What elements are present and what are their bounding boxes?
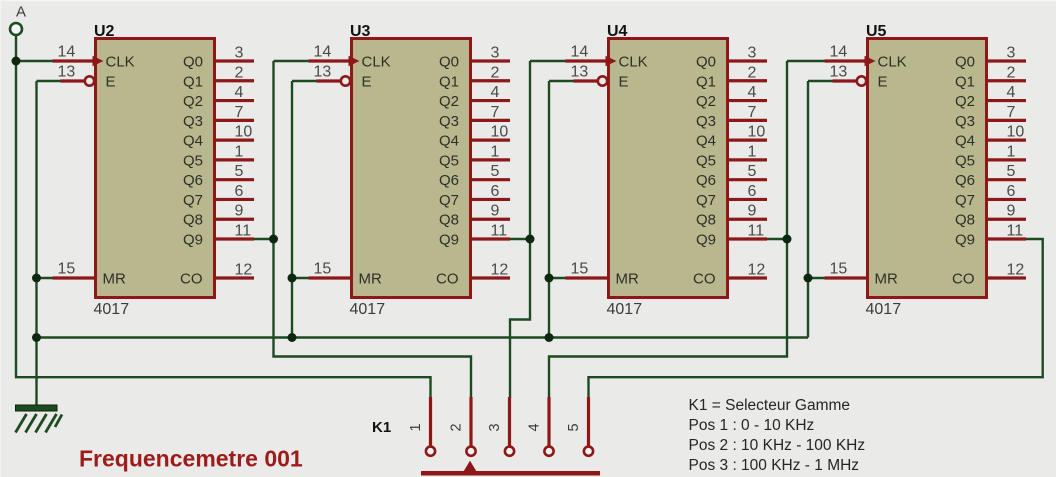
U4 pin 14 CLK xyxy=(566,44,617,67)
U5 pin 11 Q9 xyxy=(986,223,1027,240)
svg-text:E: E xyxy=(619,74,629,91)
wire U5 Q9 to K1 contact 5 xyxy=(589,239,1043,398)
junction U3 Q9 xyxy=(526,235,535,244)
U4 pin 11 Q9 xyxy=(727,223,768,240)
wire U4 Q9 to U5 CLK and K1 contact 4 xyxy=(549,61,825,398)
U3 pin 2 Q1 xyxy=(470,64,511,81)
junction U3 MR xyxy=(288,274,297,283)
svg-text:A: A xyxy=(16,4,26,21)
svg-text:12: 12 xyxy=(491,262,509,279)
svg-text:15: 15 xyxy=(830,261,848,278)
svg-text:9: 9 xyxy=(1007,203,1016,220)
svg-text:7: 7 xyxy=(748,104,757,121)
svg-text:Q5: Q5 xyxy=(696,152,716,169)
U3 pin 10 Q4 xyxy=(470,124,511,141)
U4 pin 10 Q4 xyxy=(727,124,768,141)
svg-text:Frequencemetre 001: Frequencemetre 001 xyxy=(79,446,303,472)
wire MR reset bus xyxy=(37,336,809,338)
U4 pin 7 Q3 xyxy=(727,104,768,121)
svg-text:3: 3 xyxy=(235,45,244,62)
node A terminal xyxy=(10,4,26,36)
svg-text:14: 14 xyxy=(58,44,76,61)
svg-text:Q2: Q2 xyxy=(955,93,975,110)
svg-text:11: 11 xyxy=(235,223,252,240)
svg-text:Q9: Q9 xyxy=(696,232,716,249)
wire U2 Q9 to U3 CLK and K1 contact 2 xyxy=(254,61,472,398)
svg-text:4: 4 xyxy=(1007,84,1016,101)
U2 pin 13 E (inverted) xyxy=(58,64,95,86)
IC U5 4017 body xyxy=(868,39,987,298)
K1 contact 2 xyxy=(449,397,476,456)
K1 contact 3 xyxy=(487,397,514,456)
junction U4 bus xyxy=(545,333,554,342)
junction U2 MR xyxy=(32,274,41,283)
svg-text:4: 4 xyxy=(235,84,244,101)
title Frequencemetre 001 xyxy=(79,446,303,472)
svg-text:2: 2 xyxy=(449,423,465,431)
K1 contact 4 xyxy=(527,397,554,456)
U4 pin 3 Q0 xyxy=(727,45,768,62)
note K1 legend xyxy=(689,397,866,474)
svg-text:4017: 4017 xyxy=(866,301,902,318)
svg-text:Q4: Q4 xyxy=(955,133,975,150)
svg-text:E: E xyxy=(362,74,372,91)
wire U5 E/MR vertical xyxy=(808,81,834,338)
svg-text:Q8: Q8 xyxy=(955,212,975,229)
svg-text:Q5: Q5 xyxy=(183,152,203,169)
svg-text:3: 3 xyxy=(1007,45,1016,62)
IC U4 4017 body xyxy=(609,39,728,298)
svg-text:Q7: Q7 xyxy=(955,192,975,209)
IC U3 4017 body xyxy=(352,39,471,298)
U5 refdes label xyxy=(866,23,887,40)
svg-text:15: 15 xyxy=(58,261,76,278)
svg-text:1: 1 xyxy=(748,143,757,160)
U3 pin 12 CO xyxy=(470,262,511,279)
svg-text:Q0: Q0 xyxy=(696,54,716,71)
svg-text:4: 4 xyxy=(527,423,543,431)
svg-text:Q4: Q4 xyxy=(183,133,203,150)
svg-text:14: 14 xyxy=(830,44,848,61)
svg-text:2: 2 xyxy=(748,64,757,81)
svg-text:Q3: Q3 xyxy=(955,113,975,130)
U4 pin 6 Q7 xyxy=(727,183,768,200)
svg-text:Q7: Q7 xyxy=(183,192,203,209)
svg-text:U3: U3 xyxy=(350,23,371,40)
svg-text:15: 15 xyxy=(571,261,589,278)
svg-text:Q0: Q0 xyxy=(183,54,203,71)
U4 value label 4017 xyxy=(607,301,643,318)
U5 pin 9 Q8 xyxy=(986,203,1027,220)
K1 wiper bar xyxy=(421,471,600,476)
svg-text:13: 13 xyxy=(571,64,589,81)
svg-text:1: 1 xyxy=(235,143,244,160)
svg-text:Q3: Q3 xyxy=(439,113,459,130)
svg-text:6: 6 xyxy=(235,183,244,200)
U5 pin 3 Q0 xyxy=(986,45,1027,62)
svg-text:Q5: Q5 xyxy=(955,152,975,169)
junction U4 Q9 xyxy=(783,235,792,244)
IC U2 4017 body xyxy=(96,39,215,298)
svg-text:Q9: Q9 xyxy=(183,232,203,249)
svg-text:MR: MR xyxy=(875,271,898,288)
switch K1 refdes xyxy=(372,419,391,436)
U4 pin 2 Q1 xyxy=(727,64,768,81)
U5 pin 2 Q1 xyxy=(986,64,1027,81)
svg-text:Q7: Q7 xyxy=(696,192,716,209)
U5 pin 14 CLK xyxy=(825,44,876,67)
U3 pin 11 Q9 xyxy=(470,223,511,240)
svg-text:CO: CO xyxy=(693,271,716,288)
svg-text:Q6: Q6 xyxy=(439,172,459,189)
svg-text:9: 9 xyxy=(491,203,500,220)
svg-text:7: 7 xyxy=(1007,104,1016,121)
svg-text:Q9: Q9 xyxy=(439,232,459,249)
U5 pin 4 Q2 xyxy=(986,84,1027,101)
U5 pin 13 E (inverted) xyxy=(830,64,867,86)
U3 pin 9 Q8 xyxy=(470,203,511,220)
svg-text:5: 5 xyxy=(566,423,582,431)
U5 pin 1 Q5 xyxy=(986,143,1027,160)
svg-text:7: 7 xyxy=(491,104,500,121)
junction ground/bus xyxy=(32,333,41,342)
svg-text:K1 = Selecteur Gamme: K1 = Selecteur Gamme xyxy=(689,397,851,414)
U4 pin 4 Q2 xyxy=(727,84,768,101)
U2 refdes label xyxy=(94,23,115,40)
svg-text:4: 4 xyxy=(491,84,500,101)
svg-text:Q3: Q3 xyxy=(696,113,716,130)
svg-text:Q0: Q0 xyxy=(439,54,459,71)
U2 pin 2 Q1 xyxy=(214,64,255,81)
svg-text:9: 9 xyxy=(235,203,244,220)
svg-text:14: 14 xyxy=(571,44,589,61)
svg-text:CLK: CLK xyxy=(362,54,391,71)
U5 pin 15 MR xyxy=(825,261,868,279)
svg-text:1: 1 xyxy=(1007,143,1016,160)
U3 pin 6 Q7 xyxy=(470,183,511,200)
U3 pin 1 Q5 xyxy=(470,143,511,160)
svg-text:3: 3 xyxy=(748,45,757,62)
U3 pin 4 Q2 xyxy=(470,84,511,101)
svg-text:10: 10 xyxy=(748,124,766,141)
svg-text:CLK: CLK xyxy=(619,54,648,71)
U2 pin 14 CLK xyxy=(53,44,104,67)
wire U4 E/MR vertical xyxy=(549,81,575,338)
svg-text:5: 5 xyxy=(235,163,244,180)
svg-text:Q2: Q2 xyxy=(439,93,459,110)
svg-text:9: 9 xyxy=(748,203,757,220)
svg-text:E: E xyxy=(878,74,888,91)
wire U3 Q9 to U4 CLK and K1 contact 3 xyxy=(510,61,567,398)
svg-text:Q6: Q6 xyxy=(183,172,203,189)
svg-text:Q7: Q7 xyxy=(439,192,459,209)
svg-text:Q6: Q6 xyxy=(696,172,716,189)
svg-text:Q3: Q3 xyxy=(183,113,203,130)
svg-text:CLK: CLK xyxy=(106,54,135,71)
junction U5 MR xyxy=(804,274,813,283)
wire net A: terminal down left side to K1 contact 1 xyxy=(16,35,431,398)
wire U3 E/MR vertical xyxy=(292,81,318,338)
U3 refdes label xyxy=(350,23,371,40)
svg-text:Q1: Q1 xyxy=(955,73,975,90)
wire U2 E / MR / ground vertical xyxy=(37,81,62,407)
svg-text:CO: CO xyxy=(436,271,459,288)
U2 pin 10 Q4 xyxy=(214,124,255,141)
svg-text:12: 12 xyxy=(748,262,766,279)
U2 pin 9 Q8 xyxy=(214,203,255,220)
U5 pin 5 Q6 xyxy=(986,163,1027,180)
svg-text:Q8: Q8 xyxy=(183,212,203,229)
svg-text:Q4: Q4 xyxy=(696,133,716,150)
svg-text:11: 11 xyxy=(1007,223,1024,240)
svg-text:10: 10 xyxy=(235,124,253,141)
svg-text:15: 15 xyxy=(314,261,332,278)
svg-text:CO: CO xyxy=(952,271,975,288)
svg-text:2: 2 xyxy=(1007,64,1016,81)
svg-text:1: 1 xyxy=(491,143,500,160)
U2 pin 6 Q7 xyxy=(214,183,255,200)
svg-text:10: 10 xyxy=(491,124,509,141)
svg-text:7: 7 xyxy=(235,104,244,121)
K1 contact 5 xyxy=(566,397,593,456)
svg-text:1: 1 xyxy=(408,423,424,431)
svg-text:Q0: Q0 xyxy=(955,54,975,71)
U3 pin 5 Q6 xyxy=(470,163,511,180)
svg-text:Q1: Q1 xyxy=(696,73,716,90)
U3 pin 15 MR xyxy=(309,261,352,279)
svg-text:MR: MR xyxy=(103,271,126,288)
svg-text:2: 2 xyxy=(491,64,500,81)
U2 value label 4017 xyxy=(94,301,130,318)
U3 pin 3 Q0 xyxy=(470,45,511,62)
svg-text:Q4: Q4 xyxy=(439,133,459,150)
U5 pin 10 Q4 xyxy=(986,124,1027,141)
svg-text:5: 5 xyxy=(748,163,757,180)
svg-text:Q8: Q8 xyxy=(696,212,716,229)
svg-text:K1: K1 xyxy=(372,419,391,436)
U5 pin 6 Q7 xyxy=(986,183,1027,200)
svg-text:5: 5 xyxy=(491,163,500,180)
K1 wiper arrow (position 2) xyxy=(464,461,477,472)
svg-text:13: 13 xyxy=(314,64,332,81)
svg-text:Q1: Q1 xyxy=(183,73,203,90)
svg-text:Q9: Q9 xyxy=(955,232,975,249)
svg-text:U4: U4 xyxy=(607,23,628,40)
svg-text:Pos 3 : 100 KHz - 1 MHz: Pos 3 : 100 KHz - 1 MHz xyxy=(689,457,860,474)
U2 pin 4 Q2 xyxy=(214,84,255,101)
U4 pin 15 MR xyxy=(566,261,609,279)
svg-text:Pos 2 : 10 KHz - 100 KHz: Pos 2 : 10 KHz - 100 KHz xyxy=(689,437,866,454)
svg-text:4017: 4017 xyxy=(94,301,130,318)
svg-text:Q5: Q5 xyxy=(439,152,459,169)
svg-text:Q8: Q8 xyxy=(439,212,459,229)
U5 pin 12 CO xyxy=(986,262,1027,279)
U2 pin 3 Q0 xyxy=(214,45,255,62)
svg-text:13: 13 xyxy=(830,64,848,81)
U3 value label 4017 xyxy=(350,301,386,318)
U2 pin 15 MR xyxy=(53,261,96,279)
svg-text:6: 6 xyxy=(491,183,500,200)
svg-text:5: 5 xyxy=(1007,163,1016,180)
svg-text:3: 3 xyxy=(491,45,500,62)
wire net A: branch to U2 CLK xyxy=(16,60,54,62)
svg-text:Q6: Q6 xyxy=(955,172,975,189)
svg-text:6: 6 xyxy=(748,183,757,200)
svg-text:12: 12 xyxy=(1007,262,1025,279)
junction U2 Q9 xyxy=(269,235,278,244)
svg-text:CLK: CLK xyxy=(878,54,907,71)
svg-text:CO: CO xyxy=(180,271,203,288)
junction U4 MR xyxy=(545,274,554,283)
svg-text:11: 11 xyxy=(491,223,508,240)
svg-text:MR: MR xyxy=(616,271,639,288)
svg-text:MR: MR xyxy=(359,271,382,288)
U3 pin 13 E (inverted) xyxy=(314,64,351,86)
svg-text:Q2: Q2 xyxy=(696,93,716,110)
U2 pin 12 CO xyxy=(214,262,255,279)
svg-text:4017: 4017 xyxy=(350,301,386,318)
U2 pin 1 Q5 xyxy=(214,143,255,160)
junction U3 bus xyxy=(288,333,297,342)
U2 pin 7 Q3 xyxy=(214,104,255,121)
U2 pin 5 Q6 xyxy=(214,163,255,180)
svg-text:14: 14 xyxy=(314,44,332,61)
svg-text:6: 6 xyxy=(1007,183,1016,200)
svg-text:U2: U2 xyxy=(94,23,115,40)
svg-text:E: E xyxy=(106,74,116,91)
U4 refdes label xyxy=(607,23,628,40)
svg-text:Q2: Q2 xyxy=(183,93,203,110)
U3 pin 14 CLK xyxy=(309,44,360,67)
svg-text:U5: U5 xyxy=(866,23,887,40)
svg-text:11: 11 xyxy=(748,223,765,240)
U5 pin 7 Q3 xyxy=(986,104,1027,121)
svg-text:2: 2 xyxy=(235,64,244,81)
K1 contact 1 xyxy=(408,397,435,456)
svg-text:Pos 1 : 0 - 10 KHz: Pos 1 : 0 - 10 KHz xyxy=(689,417,815,434)
U3 pin 7 Q3 xyxy=(470,104,511,121)
U4 pin 13 E (inverted) xyxy=(571,64,608,86)
U4 pin 5 Q6 xyxy=(727,163,768,180)
svg-text:12: 12 xyxy=(235,262,253,279)
ground xyxy=(16,405,63,433)
junction A/CLK xyxy=(12,57,21,66)
svg-text:4: 4 xyxy=(748,84,757,101)
U4 pin 1 Q5 xyxy=(727,143,768,160)
svg-text:10: 10 xyxy=(1007,124,1025,141)
svg-text:4017: 4017 xyxy=(607,301,643,318)
U5 value label 4017 xyxy=(866,301,902,318)
U4 pin 12 CO xyxy=(727,262,768,279)
U4 pin 9 Q8 xyxy=(727,203,768,220)
svg-text:3: 3 xyxy=(487,423,503,431)
svg-text:13: 13 xyxy=(58,64,76,81)
svg-text:Q1: Q1 xyxy=(439,73,459,90)
U2 pin 11 Q9 xyxy=(214,223,255,240)
